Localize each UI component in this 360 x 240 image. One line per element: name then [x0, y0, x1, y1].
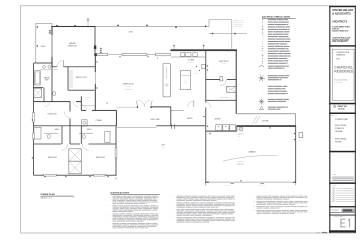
- shower: [34, 88, 42, 97]
- svg-text:COND. FOR FUT: COND. FOR FUT: [234, 22, 244, 24]
- permit set revision: [333, 105, 336, 107]
- great room north wall with sliders: [94, 53, 97, 56]
- wc partition: [34, 87, 44, 89]
- hall wall south of kitchen: [151, 105, 171, 108]
- svg-text:ELECTRICAL SYMBOLS LEGEND: ELECTRICAL SYMBOLS LEGEND: [262, 16, 291, 19]
- svg-text:◌: ◌: [262, 86, 263, 88]
- bar under project box: [329, 103, 356, 105]
- plot stamp: [322, 232, 327, 233]
- svg-text:J: J: [262, 63, 263, 65]
- storage room by entry: [81, 109, 86, 112]
- svg-text:ELECTRICAL: ELECTRICAL: [335, 124, 346, 127]
- bedroom door arcs: [62, 144, 68, 150]
- hall wall to bedrooms: [34, 124, 117, 127]
- svg-text:9'-0" CLG: 9'-0" CLG: [188, 62, 193, 64]
- upper lanai roof lines: [96, 25, 209, 27]
- svg-text:KITCHEN: KITCHEN: [188, 60, 194, 62]
- hall door arcs: [45, 102, 50, 107]
- svg-text:BEDROOM 2: BEDROOM 2: [48, 157, 57, 159]
- baths partition walls: [61, 126, 64, 144]
- electrical panel outside garage: [299, 133, 303, 138]
- svg-text:PROVIDE 4" SO: PROVIDE 4" SO: [234, 20, 243, 22]
- column dots on lanai edge: [117, 25, 119, 27]
- svg-text:◌: ◌: [262, 88, 263, 90]
- svg-text:◌: ◌: [262, 91, 263, 93]
- bar above drawn-by block: [329, 206, 356, 207]
- bar under phone: [329, 45, 356, 46]
- svg-text:POWER PLAN: POWER PLAN: [41, 193, 56, 196]
- svg-text:TMK 2-7-38-36: TMK 2-7-38-36: [334, 82, 342, 84]
- bedroom closets: [69, 149, 82, 161]
- svg-text:16'-0" X 26'-0": 16'-0" X 26'-0": [124, 86, 132, 88]
- guest room: [236, 51, 237, 114]
- lanai (master) outline: [36, 23, 52, 63]
- svg-text:GUEST ROOM: GUEST ROOM: [219, 61, 229, 63]
- svg-text:NOTE:: NOTE:: [333, 174, 337, 176]
- svg-text:ISSUE:: ISSUE:: [333, 185, 338, 187]
- title block left border: [329, 6, 330, 233]
- master bedroom south wall: [52, 65, 57, 68]
- kitchen work counter: [180, 71, 190, 90]
- west window: [33, 133, 35, 139]
- bar mid title block: [329, 151, 356, 153]
- great room south french doors: [137, 106, 138, 108]
- svg-text:NOTES: NOTES: [335, 142, 342, 144]
- svg-text:SHEET NUMBER: SHEET NUMBER: [334, 216, 343, 218]
- svg-text:LEGEND: LEGEND: [335, 131, 343, 133]
- great room west wall: [94, 56, 97, 72]
- title block right border: [355, 6, 356, 233]
- svg-text:DED. CIRC: DED. CIRC: [238, 134, 244, 136]
- garage outlets: [209, 133, 210, 134]
- legend chime symbol: [259, 66, 264, 68]
- outlet marks south wall: [44, 176, 45, 177]
- symbols above kitchen wall: [173, 46, 175, 49]
- pocket wall block: [156, 53, 171, 55]
- hall wall below master suite: [34, 100, 70, 103]
- guest lanai thin edge: [117, 127, 157, 129]
- entry vestibule: [80, 96, 83, 110]
- svg-text:W/ 6X6 WWM: W/ 6X6 WWM: [237, 162, 244, 164]
- project box: [332, 49, 354, 100]
- door leaves: [136, 101, 138, 107]
- master bedroom walls: [51, 26, 95, 27]
- svg-text:◌: ◌: [262, 93, 263, 95]
- master bath block: [32, 63, 35, 102]
- title block top bar: [329, 6, 356, 7]
- garage walls: [237, 125, 296, 127]
- svg-text:FOR:: FOR:: [336, 59, 340, 61]
- svg-text:PERMIT SET: PERMIT SET: [337, 106, 347, 108]
- playroom walls: [32, 102, 35, 176]
- pocket blob on master east wall: [94, 46, 96, 50]
- walk-in closet: [67, 67, 70, 90]
- svg-text:POWER PLAN: POWER PLAN: [335, 118, 348, 121]
- svg-text:STEVEN HELLER: STEVEN HELLER: [332, 9, 353, 12]
- wall between house and guest lanai: [156, 124, 206, 127]
- bottom bar of title block: [329, 230, 356, 232]
- guest small closet: [220, 77, 223, 81]
- svg-text:NOOK: NOOK: [195, 73, 198, 75]
- bar above sheet number: [329, 214, 356, 217]
- bath wc toilet: [53, 91, 56, 95]
- svg-text:16070 OH DR: 16070 OH DR: [259, 184, 266, 186]
- porch edge line: [117, 106, 137, 108]
- playroom west window: [33, 113, 35, 123]
- svg-text:CONSTRUCTION: CONSTRUCTION: [336, 52, 350, 54]
- bar under permit set: [329, 113, 356, 115]
- svg-text:GARAGE: GARAGE: [248, 151, 256, 154]
- bedroom wing east wall: [115, 127, 118, 149]
- svg-text:LINEN CLOSET: LINEN CLOSET: [220, 97, 229, 99]
- legend fan-light combo symbol: [262, 101, 265, 103]
- svg-text:ELECTRICAL: ELECTRICAL: [335, 138, 346, 141]
- svg-text:BEDROOM 3: BEDROOM 3: [96, 157, 105, 159]
- ceiling symbol master bedroom: [87, 20, 89, 26]
- kitchen east / garage west wall: [204, 51, 207, 103]
- kitchen island: [163, 63, 170, 97]
- bath vanity sinks: [40, 69, 58, 71]
- switch stack: [100, 48, 101, 49]
- svg-text:SYMBOLS: SYMBOLS: [335, 128, 345, 130]
- sheet number E1: [340, 219, 342, 227]
- bar above issue rows: [329, 182, 356, 184]
- svg-text:8'-0" CLG: 8'-0" CLG: [161, 146, 166, 148]
- svg-text:W/D 220V: W/D 220V: [238, 132, 243, 134]
- outlet dots great room: [96, 61, 97, 62]
- svg-text:RESIDENCE: RESIDENCE: [334, 70, 353, 74]
- roof line column dots: [205, 26, 207, 28]
- bedroom wing south wall with windows: [34, 174, 44, 177]
- pantry: [171, 109, 184, 111]
- guest closet: [227, 86, 237, 92]
- bath tub: [35, 71, 41, 85]
- svg-text:9'-0" CLG: 9'-0" CLG: [221, 63, 226, 65]
- svg-text:16070 OH DR: 16070 OH DR: [224, 184, 231, 186]
- svg-text:REF: REF: [184, 82, 187, 84]
- svg-text:BEDROOM: BEDROOM: [68, 46, 77, 48]
- svg-text:ELECTRICAL NOTES: ELECTRICAL NOTES: [111, 192, 130, 195]
- master bedroom door arc: [57, 61, 63, 67]
- legend last symbol: [260, 106, 264, 109]
- svg-text:FOYER: FOYER: [86, 97, 90, 99]
- revision rows: [333, 187, 335, 189]
- svg-text:ARCHITECTS: ARCHITECTS: [332, 20, 347, 23]
- storage strip above garage: [237, 113, 296, 115]
- legend ceiling fan symbol: [262, 77, 266, 80]
- kitchen north wall: [171, 49, 238, 51]
- svg-text:SLOPE TO DR: SLOPE TO DR: [237, 164, 245, 166]
- svg-text:& ASSOCIATES: & ASSOCIATES: [332, 12, 351, 15]
- svg-text:SHEET TITLE:: SHEET TITLE:: [331, 114, 338, 116]
- garage south wall and doors: [206, 181, 209, 184]
- wall between baths and bedrooms: [34, 143, 62, 146]
- kitchen nook symbols: [196, 66, 197, 67]
- kitchen counters and appliances: [171, 56, 205, 58]
